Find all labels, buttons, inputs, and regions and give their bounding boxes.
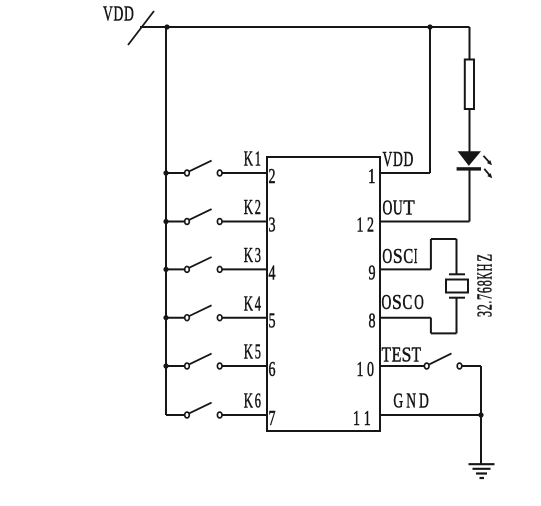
svg-text:1: 1 xyxy=(357,357,364,381)
svg-text:C: C xyxy=(403,244,413,268)
svg-text:K: K xyxy=(244,243,254,267)
svg-text:S: S xyxy=(392,290,402,314)
svg-text:2: 2 xyxy=(269,164,276,188)
svg-text:E: E xyxy=(392,342,402,366)
svg-text:K: K xyxy=(244,147,254,171)
svg-text:O: O xyxy=(382,290,392,314)
svg-text:O: O xyxy=(383,196,393,220)
svg-text:0: 0 xyxy=(367,357,374,381)
svg-text:I: I xyxy=(414,244,418,268)
svg-text:K: K xyxy=(244,195,254,219)
svg-text:3: 3 xyxy=(269,213,276,237)
svg-text:U: U xyxy=(393,196,403,220)
svg-text:4: 4 xyxy=(269,260,276,284)
svg-text:9: 9 xyxy=(369,260,376,284)
svg-text:2: 2 xyxy=(473,304,497,310)
svg-text:Z: Z xyxy=(473,254,497,262)
svg-text:H: H xyxy=(473,264,497,272)
svg-text:2: 2 xyxy=(367,213,374,237)
svg-text:V: V xyxy=(103,1,113,25)
svg-text:6: 6 xyxy=(269,357,276,381)
svg-text:8: 8 xyxy=(369,309,376,333)
svg-text:T: T xyxy=(412,342,421,366)
svg-text:D: D xyxy=(404,147,414,171)
svg-text:V: V xyxy=(383,147,393,171)
svg-text:O: O xyxy=(382,244,392,268)
svg-text:6: 6 xyxy=(473,287,497,293)
svg-text:N: N xyxy=(406,388,416,412)
svg-text:O: O xyxy=(414,290,424,314)
svg-text:K: K xyxy=(244,389,254,413)
svg-text:K: K xyxy=(244,340,254,364)
svg-text:1: 1 xyxy=(368,164,376,188)
svg-text:4: 4 xyxy=(255,291,261,315)
svg-text:3: 3 xyxy=(473,311,497,317)
svg-text:D: D xyxy=(419,388,429,412)
svg-text:D: D xyxy=(114,1,124,25)
svg-text:7: 7 xyxy=(269,406,276,430)
svg-text:1: 1 xyxy=(364,406,371,430)
svg-text:T: T xyxy=(403,196,415,220)
svg-text:D: D xyxy=(124,1,134,25)
svg-text:G: G xyxy=(393,388,403,412)
svg-text:8: 8 xyxy=(473,280,497,286)
svg-text:S: S xyxy=(393,244,403,268)
svg-text:D: D xyxy=(393,147,403,171)
svg-text:K: K xyxy=(244,291,254,315)
svg-text:.: . xyxy=(473,301,497,304)
svg-text:5: 5 xyxy=(269,309,276,333)
svg-text:1: 1 xyxy=(357,213,364,237)
svg-text:1: 1 xyxy=(255,147,261,171)
svg-text:K: K xyxy=(473,272,497,280)
svg-text:C: C xyxy=(403,290,413,314)
svg-text:7: 7 xyxy=(473,294,497,300)
svg-text:3: 3 xyxy=(255,243,261,267)
svg-text:2: 2 xyxy=(255,195,261,219)
svg-text:1: 1 xyxy=(353,406,360,430)
svg-text:S: S xyxy=(402,342,412,366)
svg-text:T: T xyxy=(382,342,391,366)
svg-text:6: 6 xyxy=(255,389,261,413)
svg-text:5: 5 xyxy=(255,340,261,364)
